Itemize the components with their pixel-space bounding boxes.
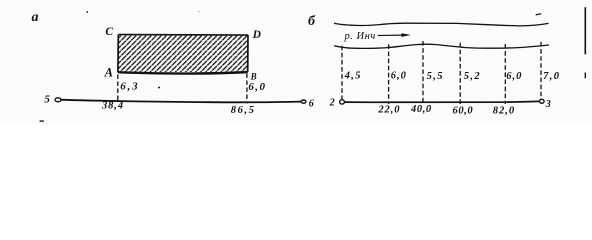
rectangle bottom edge AB (heavy) — [118, 72, 248, 74]
svg-text:6,3: 6,3 — [120, 81, 139, 93]
stray dot speck — [86, 11, 88, 13]
sounding vertical 82,0 — [504, 44, 506, 104]
page edge artifact line — [584, 7, 586, 54]
rectangle top edge CD — [118, 34, 248, 37]
svg-text:А: А — [104, 66, 113, 80]
svg-text:2: 2 — [329, 97, 335, 108]
faint dot speck — [198, 11, 200, 13]
stray dash speck — [40, 120, 44, 121]
svg-text:60,0: 60,0 — [453, 105, 474, 116]
sounding vertical 22,0 — [388, 44, 390, 104]
svg-text:82,0: 82,0 — [493, 105, 515, 116]
station point 2 (open circle) — [340, 100, 345, 104]
sounding vertical at point 2 — [341, 46, 343, 100]
sounding vertical 60,0 — [459, 43, 461, 105]
station point 3 (open circle) — [540, 99, 545, 103]
svg-text:5,5: 5,5 — [427, 71, 444, 82]
survey baseline 2-3 — [345, 101, 540, 102]
svg-text:22,0: 22,0 — [377, 104, 400, 115]
dashed tie from A down to baseline — [117, 75, 119, 103]
svg-text:С: С — [105, 26, 113, 38]
svg-text:6: 6 — [309, 98, 314, 109]
svg-text:38,4: 38,4 — [101, 101, 124, 112]
rectangle left edge CA — [117, 35, 119, 73]
small dash above bank — [536, 14, 542, 15]
sounding vertical 40,0 — [422, 41, 424, 104]
svg-text:7,0: 7,0 — [543, 71, 560, 82]
svg-text:5,2: 5,2 — [464, 71, 481, 82]
station point 6 (open circle) — [301, 100, 306, 103]
near river bank (lower wavy line) — [334, 44, 549, 48]
svg-text:6,0: 6,0 — [391, 70, 407, 81]
svg-text:р. Инч: р. Инч — [344, 31, 376, 42]
svg-text:б: б — [308, 14, 316, 29]
page edge artifact dot — [584, 73, 586, 79]
station point 5 (open circle) — [55, 98, 61, 102]
svg-text:D: D — [252, 29, 262, 41]
hatched rectangle CDBA (plan of plot) — [118, 35, 248, 73]
svg-text:40,0: 40,0 — [410, 104, 432, 115]
svg-text:В: В — [250, 71, 257, 81]
stray dot right of 6,3 — [158, 87, 160, 89]
survey baseline 5-6 — [61, 100, 301, 103]
flow direction arrow — [378, 34, 403, 36]
sounding vertical at point 3 — [540, 42, 542, 99]
svg-text:86,5: 86,5 — [231, 105, 256, 116]
svg-text:а: а — [32, 10, 39, 25]
dashed tie from B down to baseline — [246, 74, 248, 104]
svg-text:3: 3 — [545, 99, 551, 110]
svg-text:4,5: 4,5 — [344, 70, 362, 81]
svg-text:5: 5 — [44, 94, 50, 106]
svg-text:6,0: 6,0 — [506, 71, 522, 82]
rectangle right edge DB — [247, 35, 249, 72]
svg-text:6,0: 6,0 — [248, 81, 266, 93]
far river bank (upper wavy line) — [334, 23, 549, 26]
